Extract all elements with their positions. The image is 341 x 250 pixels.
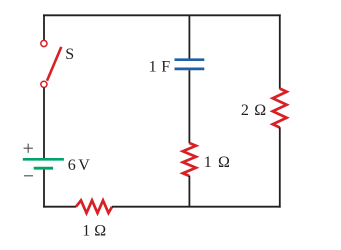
wire bottom right (resistor to bottom-right corner) xyxy=(112,206,281,208)
svg-text:2Ω: 2Ω xyxy=(241,102,266,119)
resistor R (1 ohm, middle) xyxy=(183,143,196,176)
wire top (node from left branch to right branch) xyxy=(43,14,281,16)
battery - terminal mark xyxy=(24,175,33,177)
wire bottom left (corner to resistor) xyxy=(43,206,76,208)
svg-text:1F: 1F xyxy=(149,59,171,76)
wire left upper (top-left corner to switch) xyxy=(43,14,45,40)
wire middle upper (top node to capacitor) xyxy=(188,15,190,58)
wire middle (capacitor to middle resistor) xyxy=(188,70,190,143)
wire right upper (top-right corner to 2 ohm resistor) xyxy=(279,14,281,88)
resistor R (2 ohm, right) xyxy=(273,89,287,128)
wire left middle (switch to battery) xyxy=(43,88,45,159)
svg-text:S: S xyxy=(65,46,74,63)
battery 6V plates xyxy=(23,159,64,168)
wire left lower (battery to bottom-left corner) xyxy=(43,170,45,208)
svg-text:6V: 6V xyxy=(68,157,90,174)
wire right lower (2 ohm resistor to bottom-right corner) xyxy=(279,127,281,207)
switch S xyxy=(41,40,61,87)
battery + terminal mark xyxy=(24,144,33,153)
svg-text:1Ω: 1Ω xyxy=(204,154,230,171)
svg-text:1Ω: 1Ω xyxy=(82,223,106,240)
resistor R (1 ohm, bottom) xyxy=(76,200,112,213)
wire middle lower (middle resistor to bottom node) xyxy=(188,176,190,207)
capacitor 1F plates xyxy=(175,60,205,69)
